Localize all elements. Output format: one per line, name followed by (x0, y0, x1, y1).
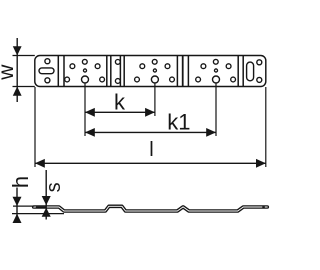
s dimension line (45, 170, 47, 220)
k1 dimension line (85, 131, 216, 133)
s arrowheads (42, 196, 51, 205)
l dimension line (35, 162, 266, 164)
projection line right end (265, 87, 267, 167)
hole pattern C (196, 59, 236, 83)
profile slot edge left (36, 206, 47, 208)
h extension line top (13, 205, 35, 207)
hole pattern A (65, 59, 105, 83)
w dimension line (16, 38, 18, 102)
right tab bottom hole (257, 77, 262, 82)
w extension lines (13, 56, 35, 87)
bump strip holes (115, 60, 120, 84)
left tab top hole (45, 59, 50, 64)
right tab top hole (257, 60, 262, 65)
bend lines at pointed rib (177, 56, 188, 87)
bend line pair at right tab (238, 56, 243, 87)
projection line from hole B (154, 84, 156, 117)
bend line pair at left tab (58, 56, 64, 87)
h dimension line (16, 188, 18, 224)
projection line from hole A (84, 84, 86, 137)
k dimension line (85, 111, 155, 113)
l arrowheads (35, 159, 45, 168)
h arrowheads (13, 197, 22, 206)
svg-text:h: h (8, 176, 33, 188)
bend lines at centre bump (107, 56, 124, 87)
svg-text:l: l (149, 139, 153, 161)
svg-text:s: s (43, 182, 65, 192)
projection line left end (34, 87, 36, 167)
profile slot edge right (262, 206, 265, 208)
w arrowheads (13, 46, 22, 55)
left tab slot (39, 68, 54, 74)
projection line from hole C (215, 84, 217, 137)
hole pattern B (135, 59, 175, 83)
h extension line bottom (12, 213, 64, 215)
left tab bottom hole (45, 78, 50, 83)
k1 arrowheads (85, 128, 95, 137)
plate outline (top view) (35, 56, 266, 87)
svg-text:w: w (0, 64, 18, 81)
k arrowheads (85, 108, 95, 117)
svg-text:k1: k1 (167, 109, 190, 134)
profile (side view) sheet (34, 206, 268, 211)
right tab slot (247, 62, 254, 81)
svg-text:k: k (114, 90, 126, 115)
